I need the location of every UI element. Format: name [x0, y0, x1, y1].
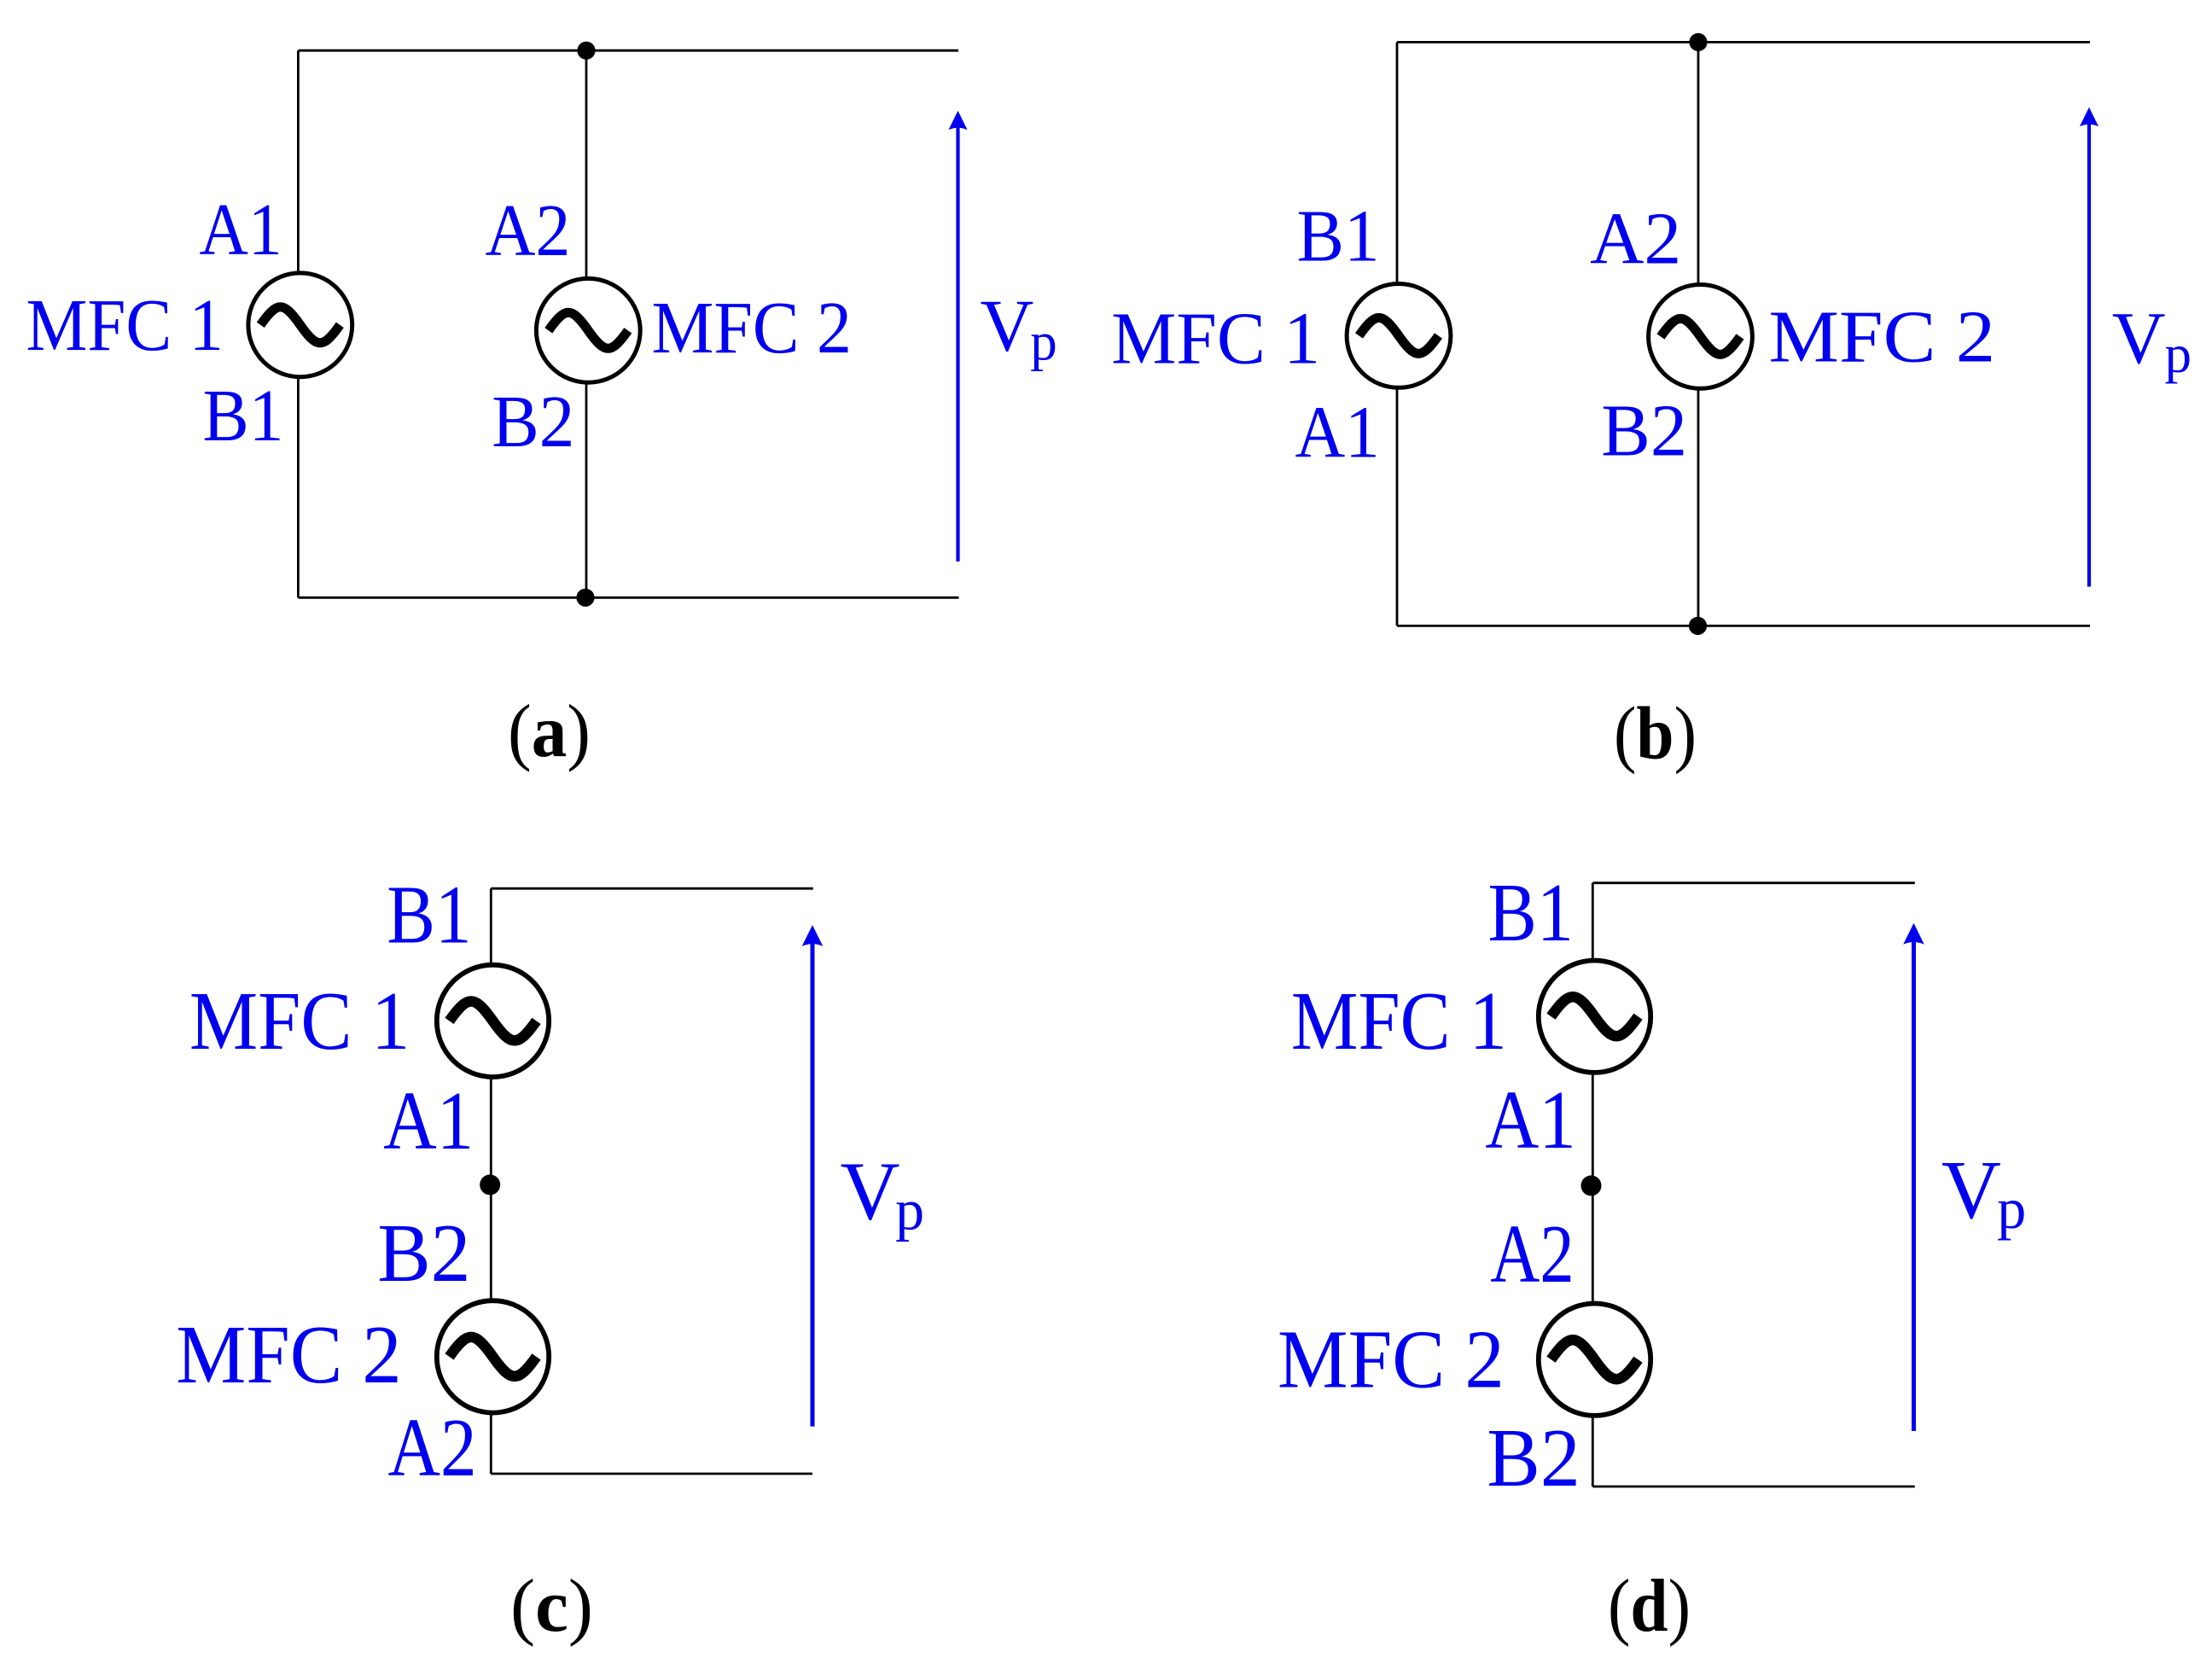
- svg-text:B1: B1: [1488, 867, 1574, 958]
- svg-text:MFC 2: MFC 2: [1278, 1313, 1505, 1405]
- svg-text:MFC 1: MFC 1: [189, 975, 410, 1067]
- wire vertical branch (c): [490, 888, 492, 1474]
- wire middle branch (b): [1697, 42, 1700, 625]
- svg-text:A2: A2: [388, 1402, 477, 1493]
- svg-text:(a): (a): [508, 690, 591, 773]
- svg-text:p: p: [1030, 312, 1057, 372]
- junction node top (b): [1689, 33, 1707, 51]
- wire top bus (d): [1592, 881, 1915, 884]
- junction node (c): [480, 1174, 500, 1195]
- wire vertical branch (d): [1592, 883, 1594, 1487]
- junction node top (a): [577, 42, 595, 60]
- svg-text:V: V: [2112, 296, 2166, 379]
- junction node bottom (b): [1689, 617, 1707, 635]
- svg-text:B1: B1: [203, 374, 284, 457]
- svg-text:A1: A1: [1295, 390, 1380, 473]
- wire left branch (a): [297, 50, 300, 597]
- wire top bus (c): [491, 887, 813, 890]
- svg-text:p: p: [1997, 1176, 2026, 1241]
- svg-text:A1: A1: [200, 188, 282, 271]
- svg-text:B1: B1: [387, 870, 471, 961]
- junction node (d): [1581, 1175, 1602, 1196]
- svg-text:MFC 1: MFC 1: [1111, 297, 1320, 380]
- svg-text:A2: A2: [1490, 1208, 1574, 1300]
- wire left branch (b): [1396, 42, 1399, 625]
- AC source MFC 2 (d): [1539, 1304, 1650, 1416]
- AC source MFC 1 (c): [437, 965, 549, 1077]
- svg-text:MFC 2: MFC 2: [176, 1309, 401, 1400]
- svg-text:MFC 1: MFC 1: [26, 283, 224, 366]
- svg-text:(b): (b): [1614, 693, 1697, 776]
- wire middle branch (a): [585, 50, 588, 597]
- svg-text:MFC 1: MFC 1: [1291, 975, 1507, 1067]
- wire bottom bus (b): [1397, 625, 2090, 627]
- svg-text:A1: A1: [383, 1075, 474, 1167]
- svg-text:B2: B2: [492, 380, 574, 463]
- labels (a): [26, 188, 1057, 463]
- wire top bus (b): [1397, 41, 2090, 44]
- svg-text:(c): (c): [510, 1565, 593, 1648]
- svg-text:(d): (d): [1608, 1565, 1691, 1648]
- svg-text:p: p: [2165, 324, 2192, 384]
- Vp arrow (b): [2080, 108, 2098, 587]
- svg-text:p: p: [895, 1177, 924, 1242]
- svg-text:V: V: [1941, 1144, 2001, 1236]
- svg-text:B2: B2: [1601, 388, 1687, 471]
- AC source MFC 2 (b): [1649, 285, 1753, 389]
- svg-text:B2: B2: [377, 1207, 470, 1299]
- AC source MFC 1 (a): [248, 273, 352, 377]
- junction node bottom (a): [576, 589, 594, 607]
- svg-text:MFC 2: MFC 2: [1769, 294, 1996, 377]
- svg-text:B2: B2: [1487, 1412, 1580, 1504]
- labels (d): [1278, 867, 2026, 1504]
- svg-text:V: V: [841, 1146, 900, 1237]
- AC source MFC 1 (b): [1347, 284, 1451, 388]
- svg-text:B1: B1: [1297, 195, 1380, 277]
- AC source MFC 1 (d): [1539, 961, 1650, 1073]
- AC source MFC 2 (a): [536, 278, 640, 382]
- svg-text:A1: A1: [1485, 1074, 1575, 1166]
- Vp arrow (a): [948, 111, 967, 561]
- wire bottom bus (c): [491, 1473, 812, 1475]
- Vp arrow (c): [802, 925, 824, 1427]
- svg-text:A2: A2: [486, 189, 571, 271]
- wire bottom bus (d): [1592, 1486, 1915, 1488]
- labels (c): [176, 870, 924, 1493]
- AC source MFC 2 (c): [437, 1300, 549, 1412]
- Vp arrow (d): [1903, 923, 1924, 1431]
- svg-text:V: V: [981, 284, 1034, 367]
- svg-text:A2: A2: [1590, 197, 1681, 280]
- svg-text:MFC 2: MFC 2: [652, 286, 853, 369]
- labels (b): [1111, 195, 2192, 474]
- wire top bus (a): [298, 49, 958, 52]
- wire bottom bus (a): [298, 596, 958, 599]
